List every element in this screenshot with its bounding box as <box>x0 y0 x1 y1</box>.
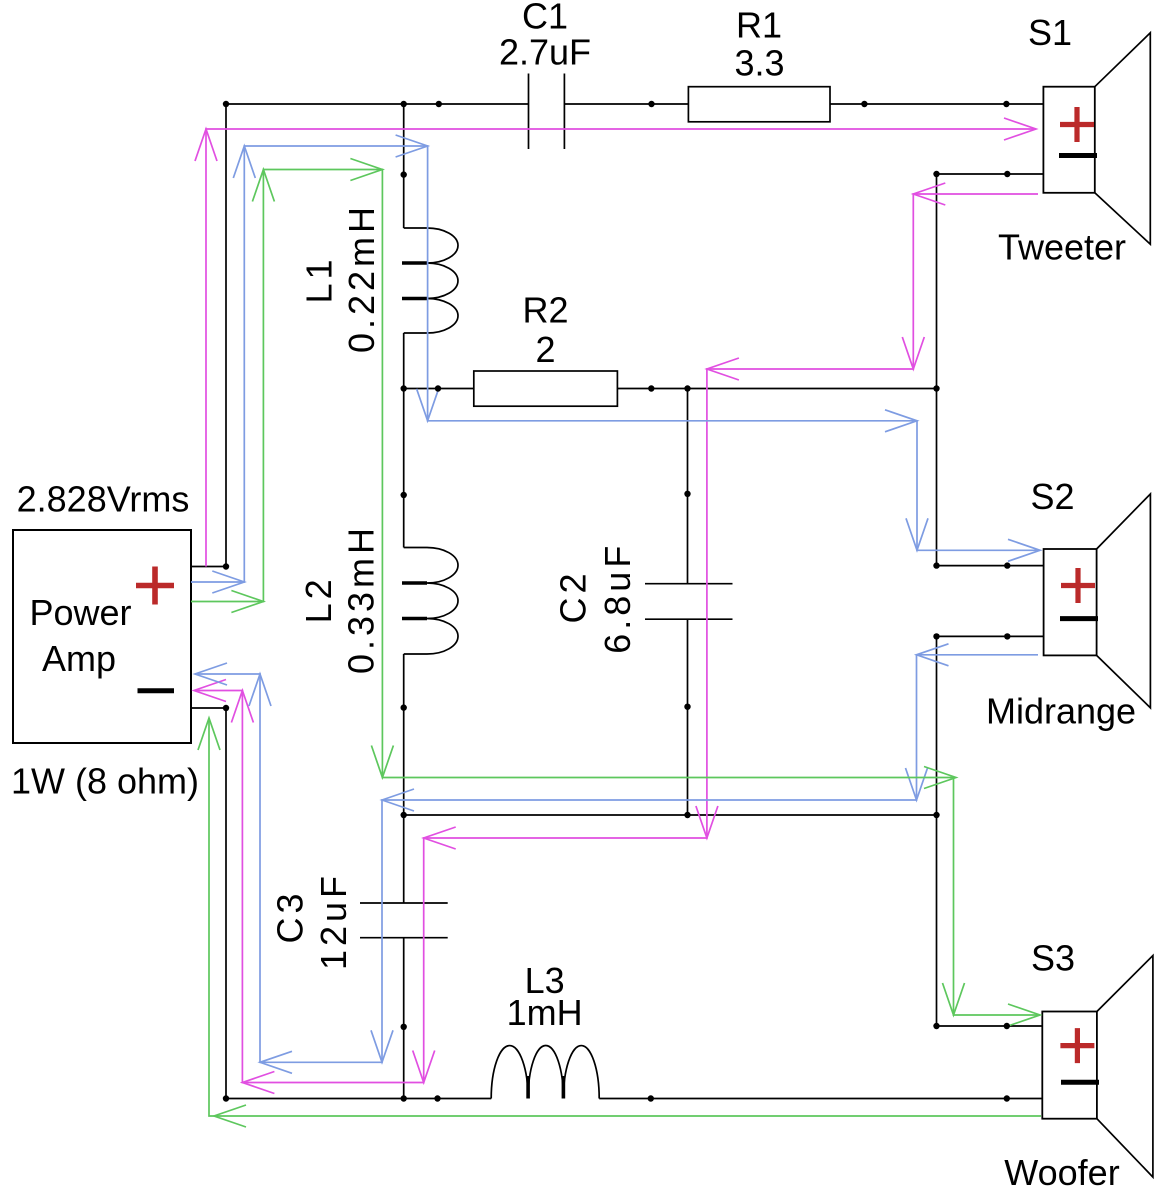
svg-text:3.3: 3.3 <box>734 42 784 83</box>
wire mid horizontal net <box>404 814 937 816</box>
speaker S2 body <box>1044 494 1151 708</box>
green arrow right at y777 corner <box>924 767 956 789</box>
node top amp plus corner <box>223 101 229 107</box>
speaker S3 minus mark <box>1061 1080 1099 1085</box>
blue arrow right at y421 corner <box>885 410 917 432</box>
blue return path from S2 minus <box>195 655 1038 1063</box>
node top segment dot a <box>436 101 442 107</box>
node amp minus corner <box>223 705 229 711</box>
node L2 bottom lead dot <box>401 704 407 710</box>
wire R2 row left <box>404 388 474 390</box>
svg-text:S1: S1 <box>1028 12 1072 53</box>
node top segment dot c <box>861 101 867 107</box>
green arrow up at x263 corner <box>252 170 274 202</box>
label Tweeter <box>998 227 1126 268</box>
wire top net mid segment <box>564 103 688 105</box>
green arrow right into S3 plus <box>1008 1004 1040 1026</box>
wire right column upper <box>936 174 938 389</box>
magenta arrow left into amp minus <box>194 680 226 702</box>
node mid net right junction <box>933 812 939 818</box>
label 2 <box>535 329 555 370</box>
node top L1 junction <box>401 101 407 107</box>
wire bottom net left segment <box>226 1098 491 1100</box>
label Woofer <box>1004 1152 1119 1193</box>
label S3 <box>1031 938 1075 979</box>
inductor L1 <box>402 228 458 333</box>
speaker S3 body <box>1042 956 1153 1178</box>
node bottom dot b <box>648 1095 654 1101</box>
wire left plus vertical <box>225 104 227 567</box>
node bottom amp minus corner <box>223 1095 229 1101</box>
svg-text:L1: L1 <box>299 255 340 303</box>
magenta arrow up at amp minus corner <box>231 691 253 723</box>
label L2 <box>298 575 339 623</box>
label 12uF <box>313 872 354 970</box>
resistor R2 <box>474 371 618 406</box>
svg-text:S3: S3 <box>1031 938 1075 979</box>
blue flow path to S2 plus <box>191 146 1040 582</box>
magenta arrow left at x424 corner <box>424 827 456 849</box>
label Midrange <box>986 691 1136 732</box>
node top segment dot b <box>648 101 654 107</box>
power amp U1 box <box>13 530 191 743</box>
inductor L2 <box>402 548 458 655</box>
svg-text:2: 2 <box>535 329 555 370</box>
label Power <box>29 592 131 633</box>
blue arrow down at y1062 corner <box>371 1030 393 1062</box>
blue arrow right at y146 corner <box>396 135 428 157</box>
label Amp <box>42 638 116 679</box>
svg-text:Woofer: Woofer <box>1004 1152 1119 1193</box>
green flow path to S3 plus <box>191 170 1040 1016</box>
node S3 plus row dot <box>1004 1023 1010 1029</box>
blue arrow up at amp minus corner <box>249 674 271 706</box>
magenta flow path to S1 plus <box>206 129 1036 567</box>
green arrow left at bottom corner <box>214 1105 246 1127</box>
green arrow right at amp plus <box>231 591 263 613</box>
blue arrow down at x427 corner <box>417 389 439 421</box>
green arrow up into amp minus <box>198 718 220 750</box>
wire amp minus stub <box>191 707 226 709</box>
node R2 row C2 junction <box>684 385 690 391</box>
node S2 minus corner <box>933 633 939 639</box>
label L3 <box>525 960 565 1001</box>
label 3.3 <box>734 42 784 83</box>
svg-text:2.7uF: 2.7uF <box>499 32 591 73</box>
label R2 <box>522 290 568 331</box>
svg-text:6.8uF: 6.8uF <box>597 542 638 654</box>
speaker S1 minus mark <box>1059 153 1097 158</box>
svg-text:Midrange: Midrange <box>986 691 1136 732</box>
node R2 row right junction <box>933 385 939 391</box>
node bottom C3 junction <box>401 1095 407 1101</box>
node S2 minus row dot <box>1004 633 1010 639</box>
node L1 lead dot <box>401 171 407 177</box>
wire right column to S2 plus <box>936 389 938 566</box>
svg-text:R2: R2 <box>522 290 568 331</box>
label L1 <box>299 255 340 303</box>
label 0.33mH <box>341 524 382 674</box>
node mid net C2 junction <box>684 812 690 818</box>
node C2 top lead dot <box>684 491 690 497</box>
node R2 row L1 junction <box>401 385 407 391</box>
speaker S1 plus mark <box>1060 107 1094 142</box>
wire C3 top lead <box>403 815 405 903</box>
label 2.828Vrms <box>17 479 190 520</box>
label 1mH <box>507 992 583 1033</box>
svg-text:0.22mH: 0.22mH <box>341 203 382 353</box>
green arrow down at x953 corner <box>943 983 965 1015</box>
wire R2 row right <box>617 388 936 390</box>
wire top net left segment <box>226 103 529 105</box>
node S3 plus corner <box>933 1023 939 1029</box>
wire right column S2 minus down <box>936 636 938 815</box>
inductor L3 <box>491 1045 599 1098</box>
wire right column to S3 plus <box>936 815 938 1026</box>
node top segment dot d <box>1003 101 1009 107</box>
wire amp plus stub <box>191 566 226 568</box>
speaker S3 plus mark <box>1060 1028 1094 1063</box>
node S2 plus row dot <box>1004 562 1010 568</box>
svg-text:1W (8 ohm): 1W (8 ohm) <box>11 761 199 802</box>
wire S2 plus row <box>937 565 1044 567</box>
speaker S2 plus mark <box>1061 568 1095 603</box>
node R2 row dot b <box>648 385 654 391</box>
speaker S2 minus mark <box>1060 616 1098 621</box>
capacitor C3 <box>360 903 448 938</box>
node S1 minus corner <box>933 171 939 177</box>
label S1 <box>1028 12 1072 53</box>
label C2 <box>553 569 594 623</box>
green arrow right at y169 corner <box>350 159 382 181</box>
node L2 top lead dot <box>401 492 407 498</box>
wire C3 bottom lead <box>403 938 405 1099</box>
blue arrow left into amp minus <box>195 663 227 685</box>
resistor R1 <box>688 87 830 122</box>
blue arrow left at S2 return corner <box>917 644 949 666</box>
wire left minus vertical <box>225 708 227 1099</box>
wire L2 bottom lead <box>403 654 405 815</box>
node C3 lower lead dot <box>401 1024 407 1030</box>
magenta arrow up at top left corner <box>195 129 217 161</box>
label 2.7uF <box>499 32 591 73</box>
svg-text:S2: S2 <box>1030 476 1074 517</box>
blue arrow left at x260 corner <box>260 1051 292 1073</box>
node bottom dot a <box>434 1095 440 1101</box>
capacitor C2 <box>645 584 733 620</box>
magenta arrow right into S1 plus <box>1004 118 1036 140</box>
svg-text:Tweeter: Tweeter <box>998 227 1126 268</box>
wire C2 bottom lead <box>687 619 689 815</box>
svg-text:Amp: Amp <box>42 638 116 679</box>
magenta arrow down at y1082 corner <box>413 1051 435 1083</box>
svg-text:12uF: 12uF <box>313 872 354 970</box>
svg-text:Power: Power <box>29 592 131 633</box>
magenta return path from S1 minus <box>194 194 1038 1083</box>
node S2 plus corner <box>933 562 939 568</box>
capacitor C1 <box>529 74 565 150</box>
magenta arrow down at x913 corner <box>902 337 924 369</box>
label 1W (8 ohm) <box>11 761 199 802</box>
blue arrow down at x917 corner <box>906 518 928 550</box>
node S1 minus row dot <box>1004 171 1010 177</box>
wire C2 top lead <box>687 389 689 584</box>
svg-text:C2: C2 <box>553 569 594 623</box>
wire S1 minus row <box>937 173 1044 175</box>
speaker S1 body <box>1043 33 1150 244</box>
label S2 <box>1030 476 1074 517</box>
amp plus terminal mark <box>136 567 174 605</box>
wire top net right segment <box>830 103 1043 105</box>
wire L1 top lead <box>403 104 405 228</box>
blue arrow right into S2 plus <box>1008 539 1040 561</box>
label 6.8uF <box>597 542 638 654</box>
wire bottom net right segment <box>599 1098 1042 1100</box>
magenta arrow left at S1 return corner <box>913 183 945 205</box>
label C3 <box>270 889 311 943</box>
svg-text:2.828Vrms: 2.828Vrms <box>17 479 190 520</box>
wire L1 bottom lead <box>403 333 405 389</box>
node amp plus corner <box>223 563 229 569</box>
svg-text:C3: C3 <box>270 889 311 943</box>
label 0.22mH <box>341 203 382 353</box>
wire S3 plus row <box>937 1025 1043 1027</box>
magenta arrow down at y838 corner <box>696 806 718 838</box>
svg-text:R1: R1 <box>736 5 782 46</box>
blue arrow right at amp plus <box>212 571 244 593</box>
magenta arrow left at x707 corner <box>707 358 739 380</box>
amp minus terminal mark <box>138 688 175 693</box>
svg-text:1mH: 1mH <box>507 992 583 1033</box>
label C1 <box>522 0 568 37</box>
wire L2 top lead <box>403 389 405 548</box>
node bottom dot c <box>1004 1095 1010 1101</box>
svg-text:L2: L2 <box>298 575 339 623</box>
node mid net L2 junction <box>401 812 407 818</box>
svg-text:0.33mH: 0.33mH <box>341 524 382 674</box>
blue arrow up at x244 corner <box>233 146 255 178</box>
blue arrow down at y800 corner <box>906 768 928 800</box>
wire S2 minus row <box>937 635 1044 637</box>
label R1 <box>736 5 782 46</box>
magenta arrow left at x242 corner <box>242 1072 274 1094</box>
node R2 row dot a <box>435 385 441 391</box>
green arrow down at x382 corner <box>371 746 393 778</box>
green return path from S3 minus <box>209 718 1041 1116</box>
blue arrow left at x382 corner <box>382 789 414 811</box>
node C2 bottom lead dot <box>684 704 690 710</box>
